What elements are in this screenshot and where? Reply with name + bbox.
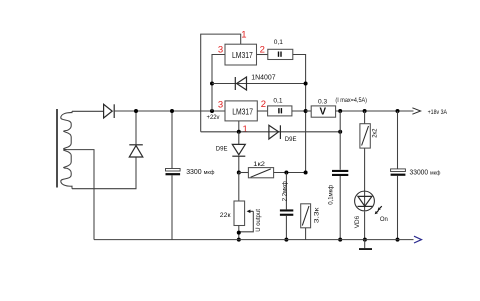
transformer T1 core (56, 109, 58, 188)
bottom rail (94, 239, 414, 241)
svg-text:2: 2 (260, 44, 265, 55)
wire U2 pin2 to R2 (257, 110, 267, 112)
resistor R5 3.3к (301, 204, 311, 228)
wire node to 1k2 (239, 172, 249, 174)
node pot rail (237, 238, 241, 242)
svg-text:0.3: 0.3 (318, 99, 327, 106)
node main-D2 (134, 109, 138, 113)
svg-text:0,1: 0,1 (274, 39, 283, 46)
LED VD6 (355, 191, 375, 211)
adj row wire (201, 131, 341, 133)
rail V box wire (306, 110, 312, 112)
node out 2k2 (363, 109, 367, 113)
node 1k2 left (237, 171, 241, 175)
node VD6 rail (363, 238, 367, 242)
wire bottom winding (72, 157, 136, 189)
pot wiper loop wire (239, 211, 254, 232)
svg-text:U output: U output (256, 209, 262, 232)
wire 1k2 to nodes (274, 172, 306, 174)
node C4 rail (396, 238, 400, 242)
LED arrows (377, 206, 382, 212)
resistor R1 0,1 (268, 49, 293, 59)
svg-text:22к: 22к (220, 212, 231, 219)
node +22v (210, 109, 214, 113)
node C2 rail (284, 238, 288, 242)
pin3 wire of U1 (212, 55, 225, 112)
wire R2 to rail (292, 110, 312, 112)
svg-text:0,1: 0,1 (273, 98, 282, 105)
node main-C1 (170, 109, 174, 113)
svg-text:3: 3 (218, 45, 223, 56)
svg-text:LM317: LM317 (232, 51, 253, 60)
left rail pin1 wire of U1 (201, 34, 241, 132)
diode VD4 D9E vertical (238, 132, 240, 173)
transformer T1 secondary winding (61, 111, 72, 188)
wire D2 to main wire (135, 111, 137, 145)
ground (364, 240, 366, 249)
potentiometer R4 22к wire top (238, 173, 240, 202)
svg-text:2к2: 2к2 (373, 128, 379, 138)
svg-text:1к2: 1к2 (253, 161, 265, 168)
diode D1 top rectifier (104, 104, 115, 118)
wire pot bottom (238, 226, 240, 240)
capacitor C2 2.2мкф wire (285, 173, 287, 240)
svg-text:3.3к: 3.3к (314, 207, 321, 223)
capacitor C1 3300 wire (171, 111, 173, 240)
op-amp U2 LM317 box (225, 101, 257, 121)
resistor R2 0,1 (268, 106, 292, 116)
svg-text:D9E: D9E (285, 137, 297, 143)
LED wire bottom (364, 212, 366, 240)
node out 0.1cap (338, 109, 342, 113)
wire U1 pin2 to R1 (257, 54, 268, 56)
diode VD3 1N4007 (212, 83, 306, 85)
svg-text:+22v: +22v (207, 115, 220, 121)
diode D2 bottom rectifier (129, 145, 143, 157)
svg-text:3: 3 (218, 99, 223, 110)
svg-text:33000 мкф: 33000 мкф (410, 170, 441, 177)
diode VD5 D9E horizontal (269, 125, 281, 139)
resistor R6 2к2 wire (364, 111, 366, 191)
node 1N4007 right (304, 82, 308, 86)
node C3 rail (338, 238, 342, 242)
svg-text:+18v 3A: +18v 3A (428, 109, 448, 116)
svg-text:V: V (320, 107, 327, 118)
output wire +18v (335, 110, 413, 112)
svg-text:VD6: VD6 (354, 215, 361, 228)
resistor R3 1к2 trimmer (248, 168, 273, 178)
svg-text:0,1мкф: 0,1мкф (329, 185, 335, 205)
capacitor C2 plates (280, 209, 293, 211)
node rail R2 (304, 109, 308, 113)
resistor R6 2к2 (360, 124, 370, 148)
capacitor C4 33000 мкф wire (397, 111, 399, 240)
node adj right (338, 130, 342, 134)
arrow +18v (412, 108, 420, 114)
pot wiper arrow (249, 210, 253, 212)
wire D1 to +22v node (113, 110, 225, 112)
op-amp U1 LM317 box (225, 44, 257, 65)
svg-text:(I max=4,5A): (I max=4,5A) (335, 98, 367, 104)
node adj U2 (237, 130, 241, 134)
capacitor C3 plates (332, 170, 348, 172)
node wiper join (237, 231, 241, 235)
svg-text:1: 1 (243, 124, 248, 135)
node 1N4007 left (210, 82, 214, 86)
svg-text:1N4007: 1N4007 (251, 75, 275, 82)
wire top winding to diode D1 (72, 110, 104, 112)
svg-text:LM317: LM317 (232, 107, 253, 116)
node 2.2 cap top (284, 171, 288, 175)
arrow bottom blue (414, 236, 422, 243)
capacitor C1 3300 мкф plates (166, 169, 181, 172)
svg-text:On: On (380, 217, 388, 223)
svg-text:D9E: D9E (216, 146, 228, 152)
svg-text:1: 1 (241, 30, 246, 41)
node out 33000 (396, 109, 400, 113)
svg-text:3300 мкф: 3300 мкф (186, 169, 215, 176)
wire U2 pin1 down (238, 121, 240, 132)
wire R1 to right rail (293, 55, 306, 173)
potentiometer R4 22к (234, 201, 245, 226)
wire middle tap (64, 150, 94, 240)
node rail 1k2 (304, 171, 308, 175)
svg-text:2.2мкф: 2.2мкф (282, 181, 288, 201)
capacitor C3 0,1мкф wire (339, 111, 341, 240)
svg-text:2: 2 (261, 99, 266, 110)
capacitor C4 plates (391, 169, 406, 172)
shunt V box (311, 106, 335, 117)
